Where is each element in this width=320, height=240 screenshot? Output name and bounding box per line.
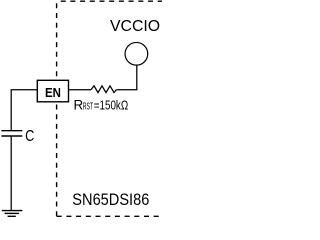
svg-text:=150kΩ: =150kΩ: [94, 98, 129, 113]
VCCIO supply terminal (circle): [125, 42, 148, 65]
svg-text:VCCIO: VCCIO: [110, 18, 160, 35]
wire: EN pin to resistor (right): [69, 89, 92, 91]
resistor value label R_RST=150kOhm: [74, 97, 129, 112]
ground: [2, 211, 23, 217]
IC boundary (dashed box, SN65DSI86): [57, 1, 162, 216]
dashed left edge lower: [56, 105, 58, 217]
svg-text:RST: RST: [83, 101, 93, 112]
EN pin box: [37, 80, 68, 102]
svg-text:R: R: [74, 97, 84, 112]
resistor R_RST: [91, 86, 116, 93]
wire: capacitor to ground: [10, 136, 12, 210]
dashed top edge: [61, 0, 162, 2]
svg-text:C: C: [25, 128, 34, 146]
svg-text:SN65DSI86: SN65DSI86: [72, 191, 149, 209]
dashed bottom edge: [57, 215, 161, 217]
svg-text:EN: EN: [45, 85, 61, 100]
wire: EN pin to capacitor (left): [11, 90, 37, 131]
wire: resistor to VCCIO terminal: [116, 65, 136, 90]
capacitor C: [1, 131, 22, 136]
dashed left edge upper: [56, 3, 58, 80]
